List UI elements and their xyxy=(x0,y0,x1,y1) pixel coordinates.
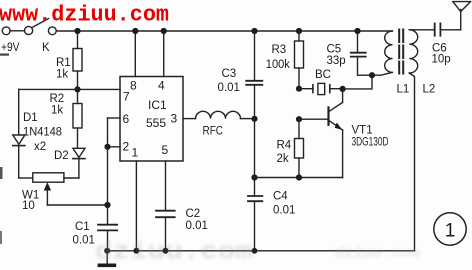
svg-text:C5: C5 xyxy=(327,44,342,56)
battery terminal +9V xyxy=(2,27,10,35)
figure circle 1 xyxy=(434,213,466,245)
svg-text:dziuu.com: dziuu.com xyxy=(95,238,253,267)
IC1 555 box xyxy=(120,77,183,162)
node C4 xyxy=(252,248,258,254)
svg-text:R1: R1 xyxy=(56,57,71,69)
svg-text:8: 8 xyxy=(130,79,137,93)
pin 2 wire xyxy=(108,146,121,148)
svg-text:www.dziuu.com: www.dziuu.com xyxy=(0,3,169,28)
switch K xyxy=(25,26,33,34)
node pin1 xyxy=(133,248,139,254)
svg-text:D2: D2 xyxy=(54,150,69,162)
svg-text:C1: C1 xyxy=(75,221,90,233)
svg-text:dziuu.com: dziuu.com xyxy=(335,245,420,262)
pin 8 wire xyxy=(134,31,136,77)
transistor VT1 xyxy=(327,107,329,124)
transformer core xyxy=(398,30,400,74)
pin 6 wire xyxy=(108,117,121,119)
wire pin6/pin2 vertical xyxy=(107,118,109,225)
wire pin7 xyxy=(78,88,121,90)
svg-text:L2: L2 xyxy=(423,84,436,96)
node R4 bottom xyxy=(296,174,302,180)
svg-text:R4: R4 xyxy=(277,140,292,152)
svg-text:6: 6 xyxy=(123,112,130,126)
capacitor C5 xyxy=(357,31,359,53)
node C1-gnd xyxy=(104,248,110,254)
svg-text:1k: 1k xyxy=(51,105,63,117)
node wiper xyxy=(104,202,110,208)
svg-text:1: 1 xyxy=(445,221,456,242)
resistor R2 xyxy=(77,89,79,103)
svg-text:0.01: 0.01 xyxy=(273,205,295,217)
node pin2 xyxy=(104,144,110,150)
watermark ghost bottom xyxy=(95,238,420,267)
svg-text:L1: L1 xyxy=(397,84,410,96)
wire to D1 branch xyxy=(19,88,78,90)
svg-text:1N4148: 1N4148 xyxy=(23,127,62,139)
node crystal left xyxy=(296,86,302,92)
node pin8 top xyxy=(132,28,138,34)
svg-text:+9V: +9V xyxy=(1,42,20,54)
wire xyxy=(10,30,24,32)
node R4 top / base xyxy=(296,116,302,122)
svg-text:C2: C2 xyxy=(186,208,201,220)
resistor R3 xyxy=(298,31,300,41)
scan artifact left edge 1 xyxy=(0,167,3,179)
svg-text:K: K xyxy=(42,42,50,54)
svg-text:4: 4 xyxy=(158,79,165,93)
coil L2 xyxy=(409,30,417,73)
svg-text:0.01: 0.01 xyxy=(186,220,208,232)
svg-text:R3: R3 xyxy=(272,44,287,56)
node C5 top xyxy=(354,28,360,34)
svg-text:7: 7 xyxy=(123,90,130,104)
ground xyxy=(106,251,108,264)
pin 5 wire xyxy=(165,161,167,211)
svg-text:C3: C3 xyxy=(222,68,237,80)
scan artifact under +9V xyxy=(0,54,9,56)
svg-text:RFC: RFC xyxy=(203,126,224,138)
node L1 bottom xyxy=(369,72,375,78)
antenna xyxy=(460,10,462,30)
potentiometer W1 xyxy=(19,177,33,179)
pin 3 wire xyxy=(183,118,196,120)
svg-text:2: 2 xyxy=(123,140,130,154)
svg-text:10: 10 xyxy=(22,200,35,212)
scan artifact left edge 2 xyxy=(0,231,2,244)
svg-text:1: 1 xyxy=(132,146,139,160)
coil L1 xyxy=(385,31,393,72)
bottom rail xyxy=(107,250,414,252)
svg-text:C4: C4 xyxy=(273,191,288,203)
svg-text:5: 5 xyxy=(162,143,169,157)
node C2 xyxy=(163,248,169,254)
svg-text:100k: 100k xyxy=(266,59,290,71)
pin 4 wire xyxy=(163,31,165,77)
capacitor C6 xyxy=(434,23,436,35)
node R1-R2-pin7 xyxy=(74,86,80,92)
capacitor C4 xyxy=(248,195,262,197)
diode D2 xyxy=(73,148,85,157)
svg-text:1k: 1k xyxy=(56,69,68,81)
svg-text:VT1: VT1 xyxy=(352,125,373,137)
svg-text:555: 555 xyxy=(146,116,166,130)
capacitor C1 xyxy=(98,224,117,226)
wire base xyxy=(299,118,329,120)
wire top rail xyxy=(56,30,392,32)
wire collector-L1 xyxy=(343,75,372,89)
inductor RFC xyxy=(196,111,241,118)
svg-text:x2: x2 xyxy=(34,141,46,153)
svg-text:2k: 2k xyxy=(277,153,289,165)
resistor R1 xyxy=(77,31,79,49)
svg-text:3DG130D: 3DG130D xyxy=(352,137,389,149)
crystal BC xyxy=(299,88,313,90)
capacitor C2 xyxy=(156,210,175,212)
capacitor C3 xyxy=(254,31,256,81)
node collector xyxy=(340,86,346,92)
svg-text:3: 3 xyxy=(171,112,178,126)
node R1 top xyxy=(74,28,80,34)
node C3 top xyxy=(251,28,257,34)
node R3 top xyxy=(296,28,302,34)
node RFC-C3C4 xyxy=(251,116,257,122)
svg-text:10p: 10p xyxy=(432,54,451,66)
svg-text:0.01: 0.01 xyxy=(218,82,240,94)
svg-text:D1: D1 xyxy=(23,112,38,124)
node emitter line left xyxy=(251,174,257,180)
node pin4 top xyxy=(161,28,167,34)
resistor R4 xyxy=(298,119,300,138)
svg-text:IC1: IC1 xyxy=(148,98,167,112)
svg-text:R2: R2 xyxy=(50,93,65,105)
svg-text:0.01: 0.01 xyxy=(73,235,95,247)
svg-text:BC: BC xyxy=(315,69,331,81)
diode D1 xyxy=(18,89,20,135)
svg-text:33p: 33p xyxy=(327,55,346,67)
pin 1 wire xyxy=(135,161,137,251)
